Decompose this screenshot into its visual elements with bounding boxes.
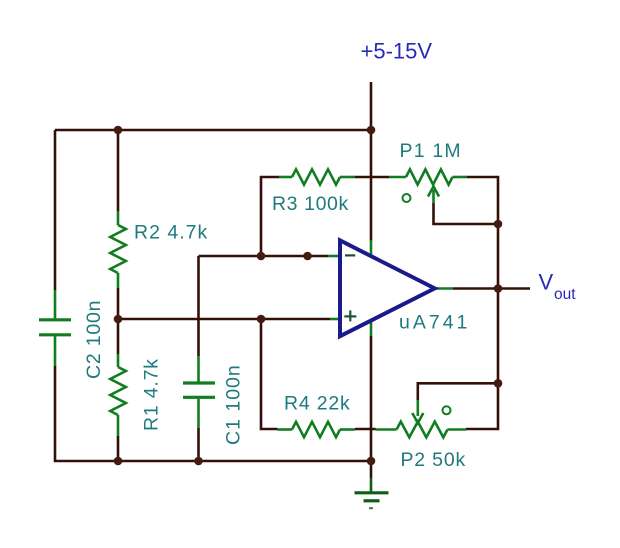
node power rail junction bbox=[367, 126, 376, 135]
wire node down to R1 top bbox=[117, 319, 120, 354]
wire inverting input (y=256) bbox=[199, 255, 329, 258]
P1 terminal circle bbox=[403, 194, 411, 202]
resistor R3 100k (horizontal) bbox=[279, 169, 355, 184]
wire C1 vertical feed from inverting input bbox=[197, 256, 200, 356]
node non-inverting branch junction bbox=[257, 315, 266, 324]
potentiometer P2 50k bbox=[376, 400, 467, 437]
wire P2 wiper link to bus bbox=[418, 383, 498, 400]
svg-text:V: V bbox=[539, 270, 554, 295]
wire top rail from left corner to power node bbox=[55, 129, 371, 132]
node P2 wiper junction bbox=[494, 379, 503, 388]
node output junction bbox=[494, 284, 503, 293]
node top-left junction bbox=[114, 126, 123, 135]
capacitor C2 100n bbox=[39, 290, 71, 366]
op-amp U1 triangle bbox=[340, 240, 435, 336]
wire P1 wiper link to bus bbox=[434, 203, 499, 224]
svg-text:uA741: uA741 bbox=[399, 312, 470, 334]
op-amp minus mark bbox=[345, 254, 355, 256]
wire left vertical lower (C2 down to bottom rail) bbox=[55, 366, 371, 461]
svg-text:C1 100n: C1 100n bbox=[223, 364, 245, 445]
svg-text:R3 100k: R3 100k bbox=[272, 193, 349, 215]
resistor R4 22k (horizontal) bbox=[278, 422, 356, 437]
node bottom rail R1 junction bbox=[114, 457, 123, 466]
op-amp U1 inverting input pin bbox=[328, 255, 340, 258]
wire C1 bottom to bottom rail bbox=[197, 428, 200, 461]
node bottom rail C1 junction bbox=[194, 457, 203, 466]
wire R4 left end down-branch to non-inverting node bbox=[261, 319, 278, 429]
node R1/R2 junction bbox=[114, 315, 123, 324]
svg-text:out: out bbox=[554, 286, 576, 303]
wire power vertical from +5-15V to op-amp V+ bbox=[370, 82, 373, 241]
node P1 wiper junction bbox=[494, 220, 503, 229]
node R3 branch junction bbox=[257, 252, 266, 261]
op-amp plus mark bbox=[344, 310, 356, 321]
P1 wiper arrow bbox=[432, 190, 435, 203]
capacitor C1 100n bbox=[183, 356, 215, 428]
svg-text:R4 22k: R4 22k bbox=[284, 393, 351, 415]
wire op-amp V- down to bottom rail bbox=[370, 336, 373, 461]
op-amp U1 non-inverting input pin bbox=[330, 318, 340, 321]
ground bbox=[355, 478, 389, 508]
svg-text:P1 1M: P1 1M bbox=[400, 140, 462, 162]
wire R3 left branch up from inverting input bbox=[261, 177, 279, 256]
wire R2 bottom to node bbox=[117, 288, 120, 319]
wire non-inverting input (y=319) bbox=[118, 318, 330, 321]
wire between P2 and R4 crossing power line bbox=[355, 428, 376, 431]
potentiometer P1 1M bbox=[389, 169, 467, 203]
svg-text:R2 4.7k: R2 4.7k bbox=[134, 222, 208, 244]
svg-text:R1 4.7k: R1 4.7k bbox=[141, 358, 163, 431]
op-amp U1 output pin bbox=[435, 287, 453, 290]
node inverting input junction bbox=[303, 252, 312, 261]
op-amp U1 power pin bottom bbox=[370, 321, 373, 336]
svg-text:+5-15V: +5-15V bbox=[361, 39, 433, 64]
svg-text:P2 50k: P2 50k bbox=[401, 449, 467, 471]
P2 terminal circle bbox=[443, 406, 451, 414]
wire left vertical upper (top rail down to C2) bbox=[54, 130, 57, 290]
wire R1 bottom to bottom rail bbox=[117, 436, 120, 461]
node bottom rail ground junction bbox=[367, 457, 376, 466]
wire output to Vout bbox=[453, 287, 530, 290]
op-amp U1 power pin top bbox=[370, 240, 373, 255]
resistor R1 4.7k (vertical) bbox=[110, 354, 126, 436]
P2 wiper arrow bbox=[416, 400, 419, 416]
wire R2 top feed at x=118 bbox=[117, 130, 120, 211]
wire between R3 and P1 crossing power line bbox=[355, 176, 389, 179]
wire bottom rail node down to ground bbox=[370, 461, 373, 478]
resistor R2 4.7k (vertical) bbox=[110, 211, 126, 288]
svg-text:C2 100n: C2 100n bbox=[83, 300, 105, 379]
wire P1 right end to right vertical bus bbox=[466, 177, 498, 429]
